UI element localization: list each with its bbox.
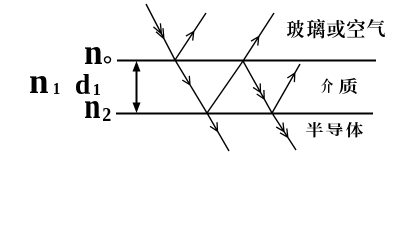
label n0 (refractive index above film) <box>85 47 111 64</box>
internally reflected ray B to C <box>207 61 243 113</box>
internally reflected ray at D going up <box>272 64 300 113</box>
transmitted ray at D into semiconductor (double arrowhead) <box>272 113 296 150</box>
refracted ray A to B inside film <box>175 60 207 113</box>
text: medium / film (middle region) <box>321 78 357 94</box>
bottom interface line (film - semiconductor boundary) <box>116 113 373 115</box>
text: semiconductor (bottom region) <box>306 122 363 138</box>
incident ray (into film, double arrowhead) <box>146 4 175 60</box>
top interface line (glass/air - film boundary) <box>117 60 376 62</box>
label d1 (film thickness) <box>76 74 100 95</box>
transmitted ray at B into semiconductor <box>207 113 229 151</box>
internally reflected ray C to D (double arrowhead) <box>243 61 272 113</box>
reflected ray at top surface point A <box>175 13 206 60</box>
label n2 (substrate refractive index) <box>85 101 110 121</box>
label n1 (film refractive index) <box>30 76 59 94</box>
text: glass or air (top region) <box>287 19 385 39</box>
transmitted ray at C exiting film upward <box>243 13 274 61</box>
thickness dimension arrow d1 (double-headed vertical) <box>133 61 141 113</box>
